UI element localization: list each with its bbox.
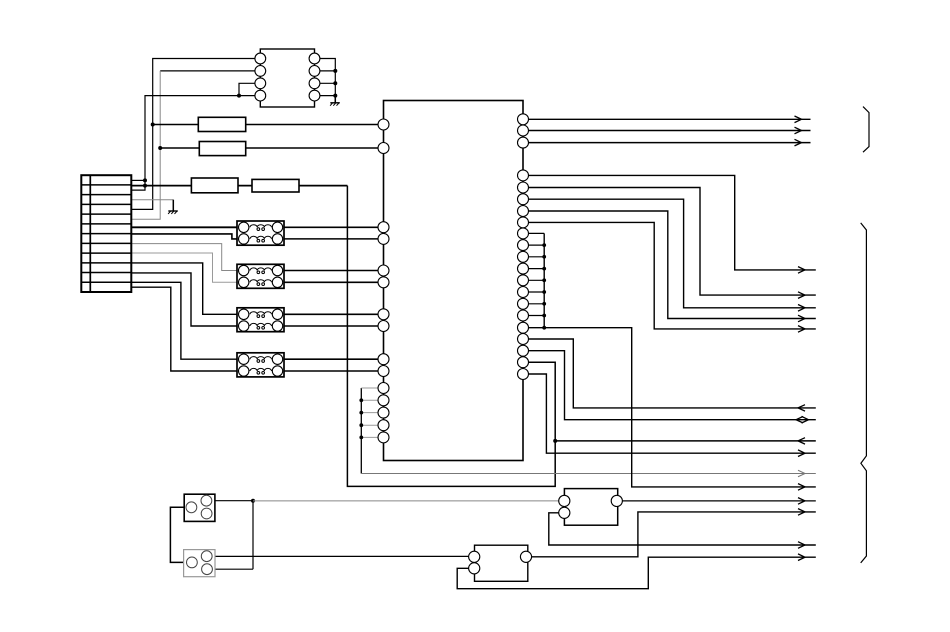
node junction left bias bus: [359, 398, 363, 402]
wire U1 right mid bus vertical: [543, 233, 545, 327]
wire connector row9 to choke FB2 bottom: [131, 253, 238, 282]
wire connector row1 stub: [131, 179, 145, 181]
wire series-resistor net right vertical down and across to U1 right pin: [347, 186, 555, 487]
arrowhead staircase line: [798, 326, 805, 333]
arrowhead staircase line: [798, 315, 805, 322]
wire left bias bus stub: [361, 399, 383, 401]
arrowhead top line: [795, 116, 802, 123]
oscillator U3: [559, 489, 623, 526]
wire U1 right top line to arrow: [523, 142, 811, 144]
wire left bias bus stub: [361, 436, 383, 438]
wire series-resistor row from connector: [131, 185, 347, 187]
wire U2 pin7 stub: [315, 70, 336, 72]
wire oscillator G1 bottom-left out to arrow y545: [549, 513, 816, 545]
arrowhead top line: [795, 127, 802, 134]
wire R2 net from vertical to U1 pin: [160, 147, 383, 149]
common-mode choke FB4: [237, 353, 284, 377]
wire left-arrow line y441: [555, 440, 816, 442]
wire connector row7 to choke FB1 bottom: [131, 234, 238, 239]
wire junction vertical x253: [252, 501, 254, 570]
wire U1 pin339 route to left-arrow line: [523, 339, 816, 408]
arrowhead double right y420: [802, 416, 809, 423]
arrowhead left y441: [798, 438, 805, 444]
wire left bias bus top stub: [361, 387, 383, 389]
wire U2 pin1 to R1 junction vertical, down to connector row4: [131, 59, 260, 210]
wire crystal Y1 left to Y2 left: [170, 507, 186, 562]
wire U2 pin6 stub: [315, 82, 336, 84]
crystal network Y2: [184, 550, 215, 577]
node junction mid bus: [542, 314, 546, 318]
ground symbol near connector: [168, 200, 178, 214]
crystal network Y1: [184, 494, 215, 521]
oscillator U4: [469, 545, 532, 581]
resistor R2: [199, 142, 245, 156]
main IC U1 (PHY): [378, 101, 529, 461]
node junction mid bus: [542, 243, 546, 247]
resistor R4: [252, 179, 299, 192]
node junction left bias bus: [359, 411, 363, 415]
node junction mid bus: [542, 255, 546, 259]
resistor R1: [198, 117, 245, 131]
wire U1 right pin staircase to arrow: [523, 211, 816, 319]
wire oscillator G1 output to arrow y501: [622, 500, 815, 502]
common-mode choke FB2: [237, 264, 284, 288]
node junction R1 left: [151, 123, 155, 127]
wire U1 right top line to arrow: [523, 130, 811, 132]
wire U1 right mid bus stub: [523, 244, 544, 246]
wire connector row11 to choke FB3 bottom: [131, 273, 238, 326]
wire oscillator G2 output up to arrow y512: [532, 512, 816, 557]
wire U1 right mid bus stub: [523, 291, 544, 293]
arrowhead right y545: [798, 542, 805, 549]
wire choke output 8 to U1 left pin: [284, 370, 384, 372]
connector J1: [81, 175, 131, 292]
arrowhead staircase line: [798, 292, 805, 299]
bracket bottom right (with notch): [861, 223, 867, 563]
wire connector row10 to choke FB3 top: [131, 263, 238, 314]
wire U1 right mid bus stub: [523, 256, 544, 258]
node junction U2 right bus c: [333, 94, 337, 98]
node junction left bias bus: [359, 423, 363, 427]
wire connector row8 to choke FB2 top: [131, 244, 238, 271]
arrowhead staircase line: [798, 267, 805, 274]
arrowhead bias line right: [798, 470, 805, 477]
common-mode choke FB1: [237, 221, 284, 245]
node junction x253: [251, 499, 255, 503]
arrowhead right y501: [798, 498, 805, 505]
arrowhead right y557: [798, 554, 805, 561]
wire U1 pin351 route to double-arrow line: [523, 351, 816, 420]
node junction U2 pin3/pin4: [237, 94, 241, 98]
wire choke output 3 to U1 left pin: [284, 270, 384, 272]
wire left bias bus stub: [361, 412, 383, 414]
node junction mid bus bottom: [542, 326, 546, 330]
node junction row2-x145: [143, 184, 147, 188]
wire Y2 bottom-right to vertical x253: [213, 568, 253, 570]
wire U1 right pin staircase to arrow: [523, 175, 816, 270]
arrowhead top line: [795, 139, 802, 146]
arrowhead right y453: [798, 450, 805, 457]
wire U2 pin5 stub: [315, 95, 336, 97]
wire U1 pin374 route to arrow y453: [523, 374, 816, 453]
node junction row1-x145: [143, 178, 147, 182]
wire connector row12a to choke FB4 top: [131, 282, 238, 359]
resistor R3: [191, 178, 238, 193]
wire connector row6 to choke FB1 top: [131, 226, 238, 228]
wire U1 right mid bus stub: [523, 315, 544, 317]
wire left bias bus vertical: [360, 388, 362, 474]
wire choke output 4 to U1 left pin: [284, 281, 384, 283]
wire Y1 top-right to junction: [212, 500, 253, 502]
wire connector row12b to choke FB4 bottom: [131, 287, 238, 371]
node junction mid bus: [542, 290, 546, 294]
node junction mid bus: [542, 267, 546, 271]
arrowhead staircase line: [798, 305, 805, 312]
wire U1 right pin staircase to arrow: [523, 199, 816, 308]
node junction R2 left: [158, 146, 162, 150]
common-mode choke FB3: [237, 308, 284, 332]
wire U1 right pin 327 out via x632 down to arrow: [523, 328, 816, 487]
wire U2 pin2 vertical to connector row5: [131, 71, 160, 219]
wire choke output 5 to U1 left pin: [284, 313, 384, 315]
wire connector row3 to ground: [131, 199, 173, 201]
wire left bias bus stub: [361, 424, 383, 426]
node junction y441: [553, 439, 557, 443]
wire U2 pin4 to vertical x145: [131, 96, 260, 191]
wire Y2 top-right long line to oscillator G2: [213, 555, 469, 557]
wire U2 right pins common vertical: [315, 59, 336, 103]
wire U1 right mid bus stub: [523, 279, 544, 281]
wire U2 pin2 horizontal: [160, 70, 260, 72]
wire choke output 6 to U1 left pin: [284, 325, 384, 327]
node junction U2 right bus b: [333, 81, 337, 85]
wire U1 right mid bus stub: [523, 268, 544, 270]
arrowhead line y487: [798, 484, 805, 491]
op-amp U2 (top 8-pin device): [255, 49, 320, 107]
bracket top right: [863, 107, 869, 153]
wire choke output 2 to U1 left pin: [284, 238, 384, 240]
wire bias line out to right arrow (gray): [361, 473, 816, 475]
node junction U2 right bus a: [333, 69, 337, 73]
node junction left bias bus: [359, 436, 363, 440]
arrowhead right y512: [798, 509, 805, 516]
wire U1 right mid bus stub: [523, 232, 544, 234]
arrowhead left y408: [798, 405, 805, 411]
wire U1 right pin staircase to arrow: [523, 188, 816, 296]
wire U1 right top line to arrow: [523, 118, 811, 120]
wire gray clock line to oscillator G1: [253, 500, 559, 502]
node junction mid bus: [542, 278, 546, 282]
wire R1 net from vertical to U1 pin: [153, 124, 384, 126]
ground symbol at U2 right bus: [330, 96, 340, 106]
wire U1 right mid bus stub: [523, 303, 544, 305]
wire oscillator G2 bottom-left loop to arrow y557: [457, 557, 816, 589]
wire U2 pin3 jog to pin4 net: [239, 83, 260, 95]
arrowhead double left y420: [796, 417, 803, 423]
wire choke output 1 to U1 left pin: [284, 226, 384, 228]
wire choke output 7 to U1 left pin: [284, 358, 384, 360]
wire U1 right pin staircase to arrow: [523, 222, 816, 329]
node junction mid bus: [542, 302, 546, 306]
